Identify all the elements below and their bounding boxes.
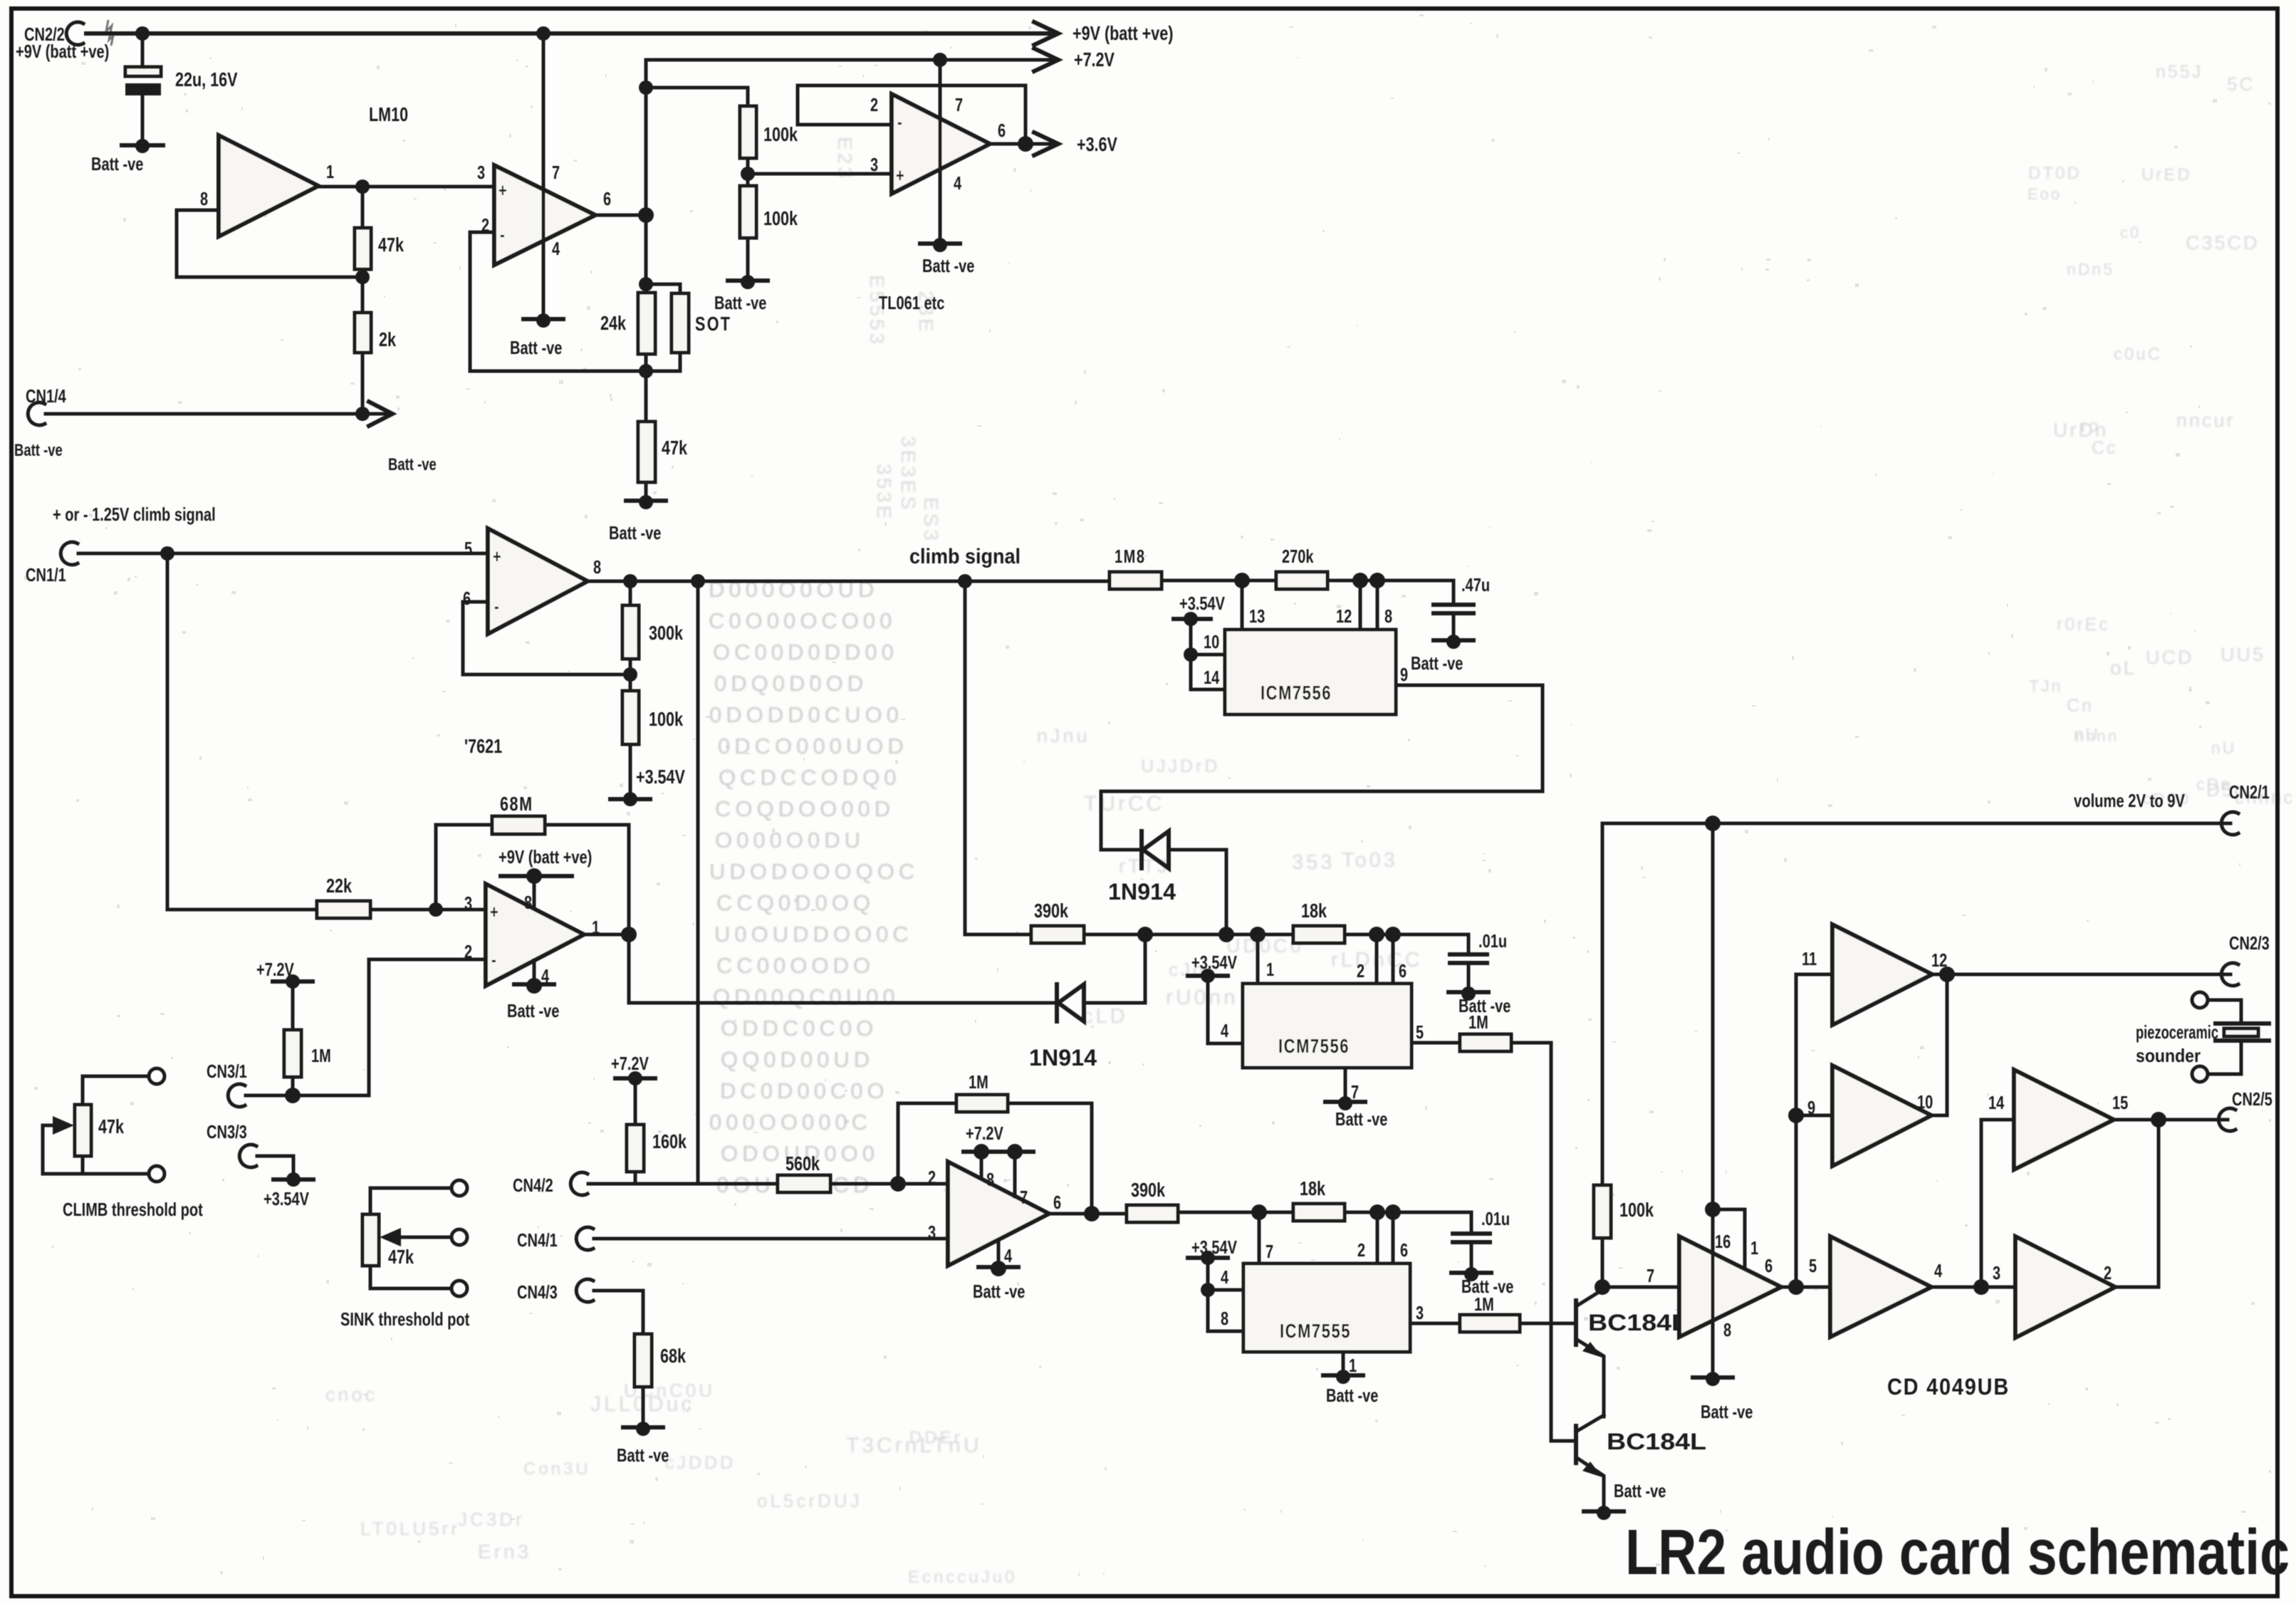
svg-text:0DQ0D0OD: 0DQ0D0OD <box>714 671 867 696</box>
svg-text:10: 10 <box>1204 631 1219 652</box>
svg-text:+: + <box>490 901 499 922</box>
svg-text:7: 7 <box>552 162 560 183</box>
svg-text:UDODOOOQOC: UDODOOOQOC <box>709 859 919 884</box>
svg-text:LT0LU5rr: LT0LU5rr <box>360 1518 460 1539</box>
svg-text:CN2/5: CN2/5 <box>2232 1088 2272 1110</box>
svg-text:353E: 353E <box>873 464 895 521</box>
svg-text:9: 9 <box>1400 664 1408 685</box>
svg-text:oL: oL <box>2110 657 2136 679</box>
svg-text:CC00OODO: CC00OODO <box>716 953 875 978</box>
svg-text:CN1/1: CN1/1 <box>26 564 66 585</box>
svg-text:JC3Dr: JC3Dr <box>458 1509 525 1530</box>
svg-text:Batt -ve: Batt -ve <box>922 255 974 276</box>
svg-text:Batt -ve: Batt -ve <box>510 337 562 358</box>
svg-text:1M: 1M <box>1474 1293 1494 1315</box>
svg-text:To03: To03 <box>1342 849 1398 872</box>
svg-text:+: + <box>499 179 507 201</box>
svg-text:8: 8 <box>593 556 601 578</box>
svg-text:CD 4049UB: CD 4049UB <box>1887 1374 2010 1400</box>
svg-text:Batt -ve: Batt -ve <box>91 153 143 175</box>
svg-text:ICM7556: ICM7556 <box>1261 682 1332 704</box>
svg-text:nDn5: nDn5 <box>2067 260 2114 278</box>
svg-text:climb signal: climb signal <box>909 545 1021 568</box>
svg-text:+3.54V: +3.54V <box>263 1188 309 1209</box>
svg-text:47k: 47k <box>388 1246 414 1268</box>
svg-text:TL061 etc: TL061 etc <box>879 292 944 313</box>
svg-text:cDn: cDn <box>2196 775 2232 793</box>
svg-text:cLD: cLD <box>1082 1005 1128 1028</box>
svg-text:+7.2V: +7.2V <box>611 1053 649 1074</box>
svg-text:6: 6 <box>1399 960 1407 981</box>
svg-text:Batt -ve: Batt -ve <box>1326 1385 1378 1406</box>
svg-text:000OO000C: 000OO000C <box>709 1110 872 1135</box>
svg-text:8: 8 <box>1384 605 1392 627</box>
svg-text:7: 7 <box>1351 1081 1359 1103</box>
svg-text:CCQ0D0OQ: CCQ0D0OQ <box>716 890 875 915</box>
svg-text:13: 13 <box>1249 605 1265 627</box>
svg-text:TUrCC: TUrCC <box>1084 792 1164 816</box>
svg-text:7: 7 <box>1020 1187 1028 1208</box>
svg-text:3: 3 <box>477 162 485 183</box>
svg-text:Ern3: Ern3 <box>478 1541 531 1563</box>
svg-text:oL5crDUJ: oL5crDUJ <box>757 1490 862 1511</box>
svg-text:8: 8 <box>1723 1319 1731 1340</box>
svg-text:15: 15 <box>2112 1092 2128 1113</box>
svg-text:+7.2V: +7.2V <box>1074 48 1115 71</box>
svg-text:+9V (batt +ve): +9V (batt +ve) <box>499 846 592 868</box>
svg-text:CN3/1: CN3/1 <box>207 1061 247 1082</box>
svg-text:.01u: .01u <box>1481 1208 1510 1229</box>
svg-text:+3.54V: +3.54V <box>1191 952 1237 973</box>
svg-text:+3.54V: +3.54V <box>636 766 685 788</box>
svg-text:47k: 47k <box>378 234 404 256</box>
svg-text:5: 5 <box>1416 1021 1424 1043</box>
svg-text:r0rEc: r0rEc <box>2057 615 2110 635</box>
svg-text:3: 3 <box>1993 1262 2000 1283</box>
svg-text:c0uC: c0uC <box>2114 345 2162 364</box>
svg-text:1M: 1M <box>1468 1011 1488 1033</box>
svg-text:nU: nU <box>2211 739 2236 757</box>
svg-text:22k: 22k <box>326 875 352 897</box>
svg-text:TJn: TJn <box>2029 677 2062 695</box>
svg-text:CN4/1: CN4/1 <box>517 1229 558 1251</box>
svg-text:cnoc: cnoc <box>325 1384 377 1405</box>
svg-text:Cn: Cn <box>2067 696 2094 716</box>
svg-text:ODDC0C0O: ODDC0C0O <box>721 1016 877 1041</box>
svg-text:8: 8 <box>524 892 532 913</box>
svg-text:OC00D0DD00: OC00D0DD00 <box>713 640 898 665</box>
svg-text:CN1/4: CN1/4 <box>26 385 66 407</box>
svg-text:1: 1 <box>1750 1237 1758 1259</box>
svg-text:n55J: n55J <box>2156 62 2203 82</box>
svg-text:DC0D00C0O: DC0D00C0O <box>720 1078 889 1103</box>
svg-text:Eoo: Eoo <box>2028 185 2062 203</box>
svg-text:SOT: SOT <box>695 313 731 335</box>
svg-text:1N914: 1N914 <box>1108 879 1176 905</box>
svg-text:cJDDD: cJDDD <box>665 1453 736 1473</box>
svg-text:2: 2 <box>870 94 878 115</box>
svg-text:UU5: UU5 <box>2221 644 2265 665</box>
svg-text:14: 14 <box>1988 1092 2005 1113</box>
svg-text:Batt -ve: Batt -ve <box>1701 1401 1753 1422</box>
svg-text:ES3: ES3 <box>920 497 942 543</box>
svg-text:Con3U: Con3U <box>523 1459 591 1479</box>
svg-text:Batt -ve: Batt -ve <box>388 455 437 474</box>
svg-text:1: 1 <box>1349 1355 1357 1376</box>
svg-text:-: - <box>491 949 496 970</box>
svg-text:C0O00OCO00: C0O00OCO00 <box>709 608 896 633</box>
svg-text:COQDOO00D: COQDOO00D <box>715 796 894 821</box>
svg-text:Batt -ve: Batt -ve <box>1614 1480 1666 1501</box>
svg-text:+: + <box>493 546 501 567</box>
svg-text:12: 12 <box>1336 605 1352 627</box>
svg-text:100k: 100k <box>763 207 798 229</box>
svg-text:U0OUDDOO0C: U0OUDDOO0C <box>714 922 913 947</box>
svg-text:2: 2 <box>1357 960 1364 981</box>
svg-text:47k: 47k <box>662 437 687 459</box>
svg-text:8: 8 <box>200 188 208 209</box>
svg-text:BC184L: BC184L <box>1607 1429 1706 1454</box>
svg-text:3: 3 <box>1416 1302 1424 1323</box>
svg-text:CN3/3: CN3/3 <box>207 1121 247 1142</box>
svg-text:47k: 47k <box>98 1115 124 1137</box>
svg-text:5: 5 <box>464 538 472 559</box>
svg-text:6: 6 <box>603 188 611 209</box>
svg-text:+9V (batt +ve): +9V (batt +ve) <box>16 41 109 62</box>
svg-text:2: 2 <box>1357 1239 1365 1261</box>
svg-text:.47u: .47u <box>1461 574 1490 595</box>
svg-text:ro: ro <box>2081 417 2100 436</box>
svg-text:160k: 160k <box>652 1130 687 1152</box>
svg-text:+3.6V: +3.6V <box>1077 133 1117 155</box>
svg-text:6: 6 <box>998 120 1006 141</box>
svg-text:1: 1 <box>1266 959 1274 980</box>
svg-text:ICM7555: ICM7555 <box>1280 1320 1351 1342</box>
svg-text:+: + <box>896 165 904 186</box>
svg-text:8: 8 <box>1221 1308 1228 1329</box>
svg-text:Batt -ve: Batt -ve <box>1411 652 1463 674</box>
svg-text:LM10: LM10 <box>369 103 408 125</box>
svg-text:2: 2 <box>2104 1262 2112 1283</box>
svg-text:'7621: '7621 <box>464 735 502 757</box>
svg-text:6: 6 <box>1400 1239 1408 1261</box>
svg-text:4: 4 <box>954 172 962 194</box>
svg-text:SINK threshold pot: SINK threshold pot <box>340 1308 470 1330</box>
svg-text:16: 16 <box>1715 1231 1731 1252</box>
svg-text:390k: 390k <box>1131 1179 1165 1201</box>
svg-text:22u, 16V: 22u, 16V <box>175 68 238 90</box>
svg-text:UJJDrD: UJJDrD <box>1141 756 1221 776</box>
svg-text:Batt -ve: Batt -ve <box>507 1000 559 1021</box>
svg-text:6: 6 <box>1053 1192 1061 1213</box>
svg-text:nU: nU <box>2074 725 2100 744</box>
svg-text:1M8: 1M8 <box>1115 546 1146 567</box>
svg-text:QCDCCODQ0: QCDCCODQ0 <box>719 765 901 790</box>
svg-text:11: 11 <box>1802 948 1817 969</box>
svg-text:+7.2V: +7.2V <box>256 959 294 980</box>
svg-text:T3CrnLTnU: T3CrnLTnU <box>846 1434 981 1457</box>
svg-text:1M: 1M <box>311 1045 331 1066</box>
svg-text:4: 4 <box>1934 1260 1943 1281</box>
svg-text:100k: 100k <box>763 123 798 145</box>
svg-text:Batt -ve: Batt -ve <box>609 522 661 543</box>
svg-text:4: 4 <box>1221 1266 1229 1288</box>
svg-text:+3.54V: +3.54V <box>1191 1236 1237 1258</box>
svg-text:-: - <box>500 224 505 245</box>
svg-text:2: 2 <box>928 1167 936 1188</box>
svg-text:1M: 1M <box>969 1071 988 1093</box>
svg-text:EcnccuJu0: EcnccuJu0 <box>908 1568 1017 1587</box>
svg-text:Batt -ve: Batt -ve <box>617 1444 669 1466</box>
svg-text:O000O0DU: O000O0DU <box>715 828 865 853</box>
svg-text:Batt -ve: Batt -ve <box>1335 1108 1387 1130</box>
svg-text:24k: 24k <box>600 312 626 334</box>
svg-text:5C: 5C <box>2227 73 2255 95</box>
svg-text:4: 4 <box>1004 1245 1013 1266</box>
svg-text:1: 1 <box>326 161 334 182</box>
svg-text:3: 3 <box>928 1222 936 1243</box>
svg-text:6: 6 <box>1765 1255 1773 1276</box>
svg-text:-: - <box>494 595 499 617</box>
svg-text:100k: 100k <box>1619 1199 1654 1221</box>
svg-text:4: 4 <box>552 238 560 259</box>
svg-text:rU0nn: rU0nn <box>1166 986 1238 1009</box>
svg-text:QQ0D00UD: QQ0D00UD <box>721 1047 874 1072</box>
svg-text:300k: 300k <box>649 622 683 644</box>
svg-text:LR2 audio card schematic: LR2 audio card schematic <box>1625 1517 2290 1588</box>
svg-text:UrED: UrED <box>2141 165 2192 184</box>
svg-text:4: 4 <box>1221 1020 1229 1041</box>
svg-text:3E3ES: 3E3ES <box>897 436 919 512</box>
svg-text:C35CD: C35CD <box>2186 232 2260 254</box>
svg-text:Batt -ve: Batt -ve <box>973 1281 1025 1302</box>
svg-text:7: 7 <box>1647 1265 1654 1286</box>
svg-text:68k: 68k <box>660 1345 686 1367</box>
svg-text:5: 5 <box>1809 1255 1817 1276</box>
svg-text:+9V (batt +ve): +9V (batt +ve) <box>1073 22 1173 44</box>
svg-text:CN2/3: CN2/3 <box>2229 932 2270 954</box>
svg-text:+7.2V: +7.2V <box>966 1123 1003 1144</box>
svg-text:c0: c0 <box>2120 224 2141 241</box>
svg-text:14: 14 <box>1204 667 1220 688</box>
svg-text:18k: 18k <box>1300 1177 1325 1199</box>
svg-text:ICM7556: ICM7556 <box>1278 1035 1350 1057</box>
svg-text:CN4/2: CN4/2 <box>513 1175 553 1196</box>
svg-text:DT0D: DT0D <box>2028 164 2082 183</box>
svg-text:353: 353 <box>1292 851 1335 874</box>
svg-text:0DCO000UOD: 0DCO000UOD <box>718 734 908 759</box>
svg-text:18k: 18k <box>1301 900 1327 922</box>
svg-text:CN4/3: CN4/3 <box>517 1281 558 1303</box>
svg-text:560k: 560k <box>786 1152 820 1175</box>
svg-text:BC184L: BC184L <box>1588 1310 1688 1335</box>
svg-text:8: 8 <box>986 1169 994 1190</box>
svg-text:270k: 270k <box>1282 546 1314 567</box>
svg-text:3: 3 <box>464 892 472 914</box>
svg-text:390k: 390k <box>1034 900 1068 922</box>
svg-text:7: 7 <box>955 94 963 115</box>
svg-text:volume 2V to 9V: volume 2V to 9V <box>2074 790 2186 811</box>
svg-text:QD00QC0U00: QD00QC0U00 <box>713 984 899 1009</box>
svg-text:CLIMB threshold pot: CLIMB threshold pot <box>63 1199 203 1220</box>
svg-text:68M: 68M <box>500 793 533 815</box>
svg-text:Cc: Cc <box>2092 438 2118 458</box>
svg-text:+3.54V: +3.54V <box>1179 593 1225 614</box>
svg-text:UCD: UCD <box>2146 647 2194 668</box>
svg-text:+ or - 1.25V climb signal: + or - 1.25V climb signal <box>53 504 216 525</box>
svg-text:7: 7 <box>1266 1241 1273 1262</box>
svg-text:nncur: nncur <box>2176 410 2235 431</box>
svg-text:nJnu: nJnu <box>1037 725 1090 746</box>
svg-text:-: - <box>897 111 902 132</box>
svg-text:2k: 2k <box>379 328 396 350</box>
svg-text:3: 3 <box>870 154 878 175</box>
svg-text:.01u: .01u <box>1478 930 1507 952</box>
svg-text:100k: 100k <box>649 708 683 730</box>
svg-text:Batt -ve: Batt -ve <box>14 441 63 460</box>
svg-text:10: 10 <box>1917 1091 1933 1113</box>
svg-text:CN2/1: CN2/1 <box>2229 781 2270 803</box>
svg-text:Batt -ve: Batt -ve <box>714 292 766 313</box>
svg-text:0DODD0CUO0: 0DODD0CUO0 <box>709 702 903 727</box>
svg-text:piezoceramic: piezoceramic <box>2136 1021 2218 1043</box>
svg-text:sounder: sounder <box>2136 1045 2201 1066</box>
svg-text:1N914: 1N914 <box>1029 1045 1097 1071</box>
